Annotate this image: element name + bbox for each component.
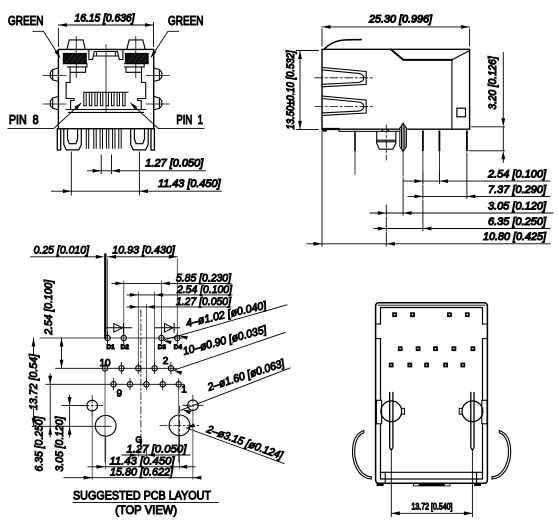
- rear view: side seam notches: [376, 324, 488, 339]
- svg-text:15.80 [0.622]: 15.80 [0.622]: [110, 466, 174, 478]
- svg-text:1.27 [0.050]: 1.27 [0.050]: [145, 158, 204, 170]
- front view: right light pipe: [127, 40, 145, 50]
- front view: socket bottom double line: [66, 110, 146, 113]
- pcb: signal pad row 10-2: [102, 366, 107, 371]
- pcb: dimension 5.85 [0.230]: [112, 282, 231, 284]
- rear view: pin holes row 1 (LED pins): [392, 312, 397, 317]
- rear view: post keys: [401, 408, 462, 414]
- svg-text:PIN 8: PIN 8: [9, 112, 39, 127]
- rear view: left post hole circle: [381, 401, 402, 422]
- rear view: right EMI spring arm: [492, 431, 511, 479]
- front view: LED window left (hatched): [63, 54, 86, 64]
- svg-text:2.54 [0.100]: 2.54 [0.100]: [43, 279, 55, 336]
- side view: base shelf under body: [339, 129, 400, 131]
- pcb: mounting hole small left (1.60): [87, 400, 98, 411]
- svg-text:0.25 [0.010]: 0.25 [0.010]: [34, 244, 90, 256]
- front view: dimension 1.27 [0.050]: [88, 155, 206, 174]
- label GREEN (left) with leader: [8, 13, 62, 59]
- side view: dimension 3.05 [0.120]: [370, 178, 553, 215]
- svg-text:3.05 [0.120]: 3.05 [0.120]: [54, 416, 66, 472]
- front view: LED window right (hatched): [126, 54, 149, 64]
- pcb: leader 4-x1.02: [163, 305, 287, 340]
- side view: rear shield pin: [466, 131, 468, 150]
- svg-text:9: 9: [117, 388, 123, 399]
- rear view: left EMI spring arm: [352, 431, 371, 479]
- svg-text:10.93 [0.430]: 10.93 [0.430]: [112, 244, 176, 256]
- svg-text:13.72 [0.54]: 13.72 [0.54]: [28, 353, 40, 410]
- pcb: left dimension 3.05 [0.120]: [62, 395, 88, 437]
- svg-text:D2: D2: [121, 344, 130, 351]
- front view: side wing lower-left: [50, 96, 58, 110]
- side view: dimension 7.37 [0.290]: [408, 153, 550, 198]
- rear view: pin holes row 2: [398, 346, 403, 351]
- svg-text:10: 10: [100, 358, 112, 369]
- front view: wing centerlines: [43, 76, 169, 104]
- side view: rear top chamfer (shield fold): [391, 50, 452, 60]
- pcb: left dimension 2.54 [0.100] (rows): [61, 338, 63, 368]
- front view: LED holder steps right: [125, 64, 145, 78]
- rear view: dimension 13.72 [0.540]: [391, 452, 472, 517]
- side view: dimension 25.30 [0.996]: [322, 27, 470, 46]
- front view: side wing upper-right: [154, 68, 162, 81]
- front view: contact comb (8 contacts): [84, 92, 128, 106]
- pcb: mounting hole big right (3.15): [169, 415, 190, 436]
- side view: signal pin 1: [422, 131, 424, 150]
- pcb: bottom dimension 15.80 [0.622]: [64, 477, 200, 479]
- svg-text:SUGGESTED PCB LAYOUT: SUGGESTED PCB LAYOUT: [73, 488, 211, 502]
- rear view: right shield tab rect: [482, 400, 487, 424]
- svg-text:11.43 [0.450]: 11.43 [0.450]: [158, 178, 221, 190]
- pcb: LED pads row (D1-D4): [105, 335, 110, 340]
- side view: dimension 13.50±0.10 [0.532]: [296, 51, 318, 130]
- side view: shield leg x=355: [354, 131, 356, 150]
- pcb: left dimension 13.72 [0.54]: [33, 338, 35, 426]
- label GREEN (right) with leader: [149, 13, 204, 59]
- front view: LED holder steps left: [67, 64, 87, 78]
- svg-text:10.80 [0.425]: 10.80 [0.425]: [483, 231, 547, 243]
- side view: dimension 2.54 [0.100] (pins): [404, 172, 550, 184]
- side view: body outline: [322, 49, 470, 129]
- side view: dimension 10.80 [0.425]: [307, 131, 550, 246]
- pcb: bottom dimension 1.27 [0.050]: [122, 454, 190, 456]
- pcb: diode symbol D1-D2: [104, 324, 131, 333]
- svg-text:2.54 [0.100]: 2.54 [0.100]: [176, 284, 233, 296]
- pcb: left dimension 6.35 [0.250]: [49, 374, 51, 437]
- pcb: bottom dimension 11.43 [0.450]: [88, 466, 195, 468]
- svg-text:7.37 [0.290]: 7.37 [0.290]: [488, 184, 547, 196]
- rear view: right post hole circle: [462, 401, 483, 422]
- pcb: mounting hole small right (1.60): [188, 400, 199, 411]
- svg-text:6.35 [0.250]: 6.35 [0.250]: [488, 216, 547, 228]
- side view: dimension 6.35 [0.250]: [374, 200, 550, 231]
- svg-text:6.35 [0.250]: 6.35 [0.250]: [34, 416, 46, 472]
- rear view: bottom inner edge and center tab: [381, 472, 483, 483]
- pcb: dimension 1.27 [0.050]: [127, 306, 231, 308]
- pcb: extension verticals to bottom dims: [92, 372, 193, 480]
- svg-text:13.72 [0.540]: 13.72 [0.540]: [412, 502, 453, 512]
- front view: dimension 16.15 [0.636]: [58, 13, 153, 47]
- pcb: signal pad row 9-1: [111, 382, 116, 387]
- svg-text:D1: D1: [106, 344, 115, 351]
- svg-text:(TOP VIEW): (TOP VIEW): [115, 503, 177, 517]
- side view: signal pin 2: [438, 131, 440, 150]
- pcb: diode symbol D3-D4: [155, 324, 179, 333]
- svg-text:3.05 [0.120]: 3.05 [0.120]: [488, 201, 547, 213]
- side view: plastic snap post: [377, 129, 396, 149]
- pcb: board edge reference line (thick): [104, 255, 106, 339]
- side view: slot lower centerline: [315, 105, 373, 107]
- rear view: left shield tab rect: [376, 400, 381, 424]
- side view: rear square hole: [457, 108, 466, 117]
- pcb: leader 2-x1.60: [181, 368, 291, 410]
- svg-text:GREEN: GREEN: [168, 13, 204, 28]
- pcb: jack centerline: [140, 310, 142, 450]
- svg-text:1.27 [0.050]: 1.27 [0.050]: [176, 296, 232, 308]
- side view: snap post centerline: [385, 125, 387, 160]
- front view: side wing lower-right: [154, 96, 162, 110]
- svg-text:PIN 1: PIN 1: [176, 112, 203, 127]
- front view: socket opening side walls: [66, 78, 146, 110]
- front view: legs: [57, 129, 60, 150]
- rear view: pin holes row 3: [389, 363, 394, 368]
- rear view: left press-fit pin through hole: [390, 393, 393, 451]
- svg-text:1: 1: [181, 385, 187, 396]
- side view: dimension 3.20 [0.126]: [469, 53, 505, 163]
- front view: center keying tab: [89, 50, 123, 60]
- svg-text:5.85 [0.230]: 5.85 [0.230]: [176, 272, 232, 284]
- front view: left light pipe: [67, 40, 85, 50]
- front view: body outline: [58, 49, 153, 128]
- pcb: leader 2-x3.15: [187, 428, 285, 464]
- svg-text:GREEN: GREEN: [8, 13, 44, 28]
- svg-text:1.27 [0.050]: 1.27 [0.050]: [126, 444, 187, 456]
- svg-text:2: 2: [163, 356, 169, 367]
- rear view: outer shell: [376, 303, 488, 484]
- side view: latch slot lower: [322, 96, 366, 115]
- front view: side wing upper-left: [50, 68, 58, 81]
- pcb: mounting hole big left (3.15): [95, 415, 116, 436]
- rear view: right press-fit pin through hole: [471, 393, 474, 451]
- rear view: inner shell wall: [381, 308, 483, 480]
- pcb: dimension 2.54 [0.100]: [127, 294, 232, 296]
- svg-text:25.30 [0.996]: 25.30 [0.996]: [368, 14, 433, 26]
- pcb: row extension lines to left dims: [32, 338, 184, 426]
- pcb: leader 10-x0.90: [174, 333, 286, 371]
- front view: dimension 11.43 [0.450]: [52, 152, 222, 195]
- pcb: extension lines (columns): [108, 259, 178, 382]
- side view: press-fit pin (grooved): [400, 123, 407, 151]
- side view: EMI finger curve on top: [325, 40, 362, 49]
- svg-text:3.20 [0.126]: 3.20 [0.126]: [487, 56, 499, 110]
- svg-text:13.50±0.10 [0.532]: 13.50±0.10 [0.532]: [285, 50, 297, 130]
- svg-text:D3: D3: [158, 344, 167, 351]
- front view: vertical centerline: [105, 45, 107, 113]
- svg-text:16.15 [0.636]: 16.15 [0.636]: [75, 13, 136, 25]
- side view: latch slot upper: [322, 67, 366, 86]
- svg-text:2.54 [0.100]: 2.54 [0.100]: [487, 168, 547, 180]
- side view: slot upper centerline: [315, 77, 373, 79]
